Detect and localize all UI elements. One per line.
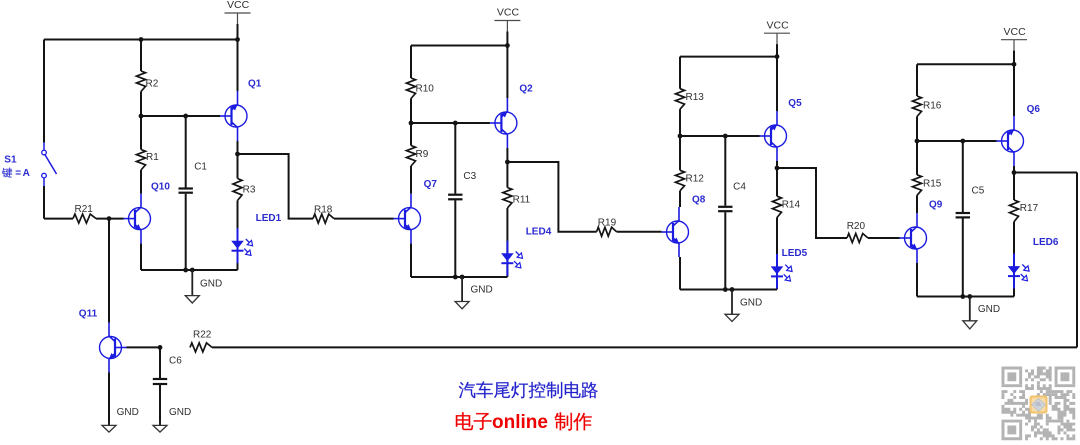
svg-text:VCC: VCC xyxy=(227,0,250,11)
svg-text:GND: GND xyxy=(471,284,493,295)
svg-text:GND: GND xyxy=(200,279,222,290)
svg-text:Q11: Q11 xyxy=(79,309,98,320)
svg-text:A: A xyxy=(23,168,30,179)
svg-text:Q1: Q1 xyxy=(248,79,262,90)
svg-text:S1: S1 xyxy=(4,154,17,165)
svg-text:Q5: Q5 xyxy=(788,98,802,109)
svg-text:LED1: LED1 xyxy=(256,213,282,224)
svg-text:C3: C3 xyxy=(463,171,476,182)
svg-text:GND: GND xyxy=(740,298,762,309)
svg-text:R22: R22 xyxy=(193,329,212,340)
svg-text:GND: GND xyxy=(978,304,1000,315)
svg-text:VCC: VCC xyxy=(497,7,520,19)
svg-text:R3: R3 xyxy=(243,185,256,196)
svg-text:LED5: LED5 xyxy=(782,248,808,259)
svg-text:Q7: Q7 xyxy=(424,179,438,190)
svg-text:R13: R13 xyxy=(686,92,705,103)
svg-text:R11: R11 xyxy=(513,194,531,205)
svg-text:R15: R15 xyxy=(923,178,942,189)
svg-text:R9: R9 xyxy=(416,149,429,160)
svg-text:R21: R21 xyxy=(75,204,94,215)
svg-text:R12: R12 xyxy=(686,173,705,184)
svg-text:C4: C4 xyxy=(733,181,746,192)
svg-text:LED6: LED6 xyxy=(1033,237,1059,248)
svg-text:R20: R20 xyxy=(847,221,866,232)
svg-text:GND: GND xyxy=(117,407,139,418)
svg-text:Q10: Q10 xyxy=(151,181,170,192)
svg-text:online: online xyxy=(492,412,548,433)
svg-text:GND: GND xyxy=(169,407,191,418)
svg-text:Q8: Q8 xyxy=(692,195,706,206)
svg-text:Q2: Q2 xyxy=(519,83,533,94)
svg-text:R14: R14 xyxy=(782,199,801,210)
svg-text:C5: C5 xyxy=(972,186,985,197)
svg-text:R2: R2 xyxy=(146,79,159,90)
svg-text:Q6: Q6 xyxy=(1027,104,1041,115)
svg-text:LED4: LED4 xyxy=(526,226,552,237)
svg-text:R10: R10 xyxy=(416,83,435,94)
svg-text:R1: R1 xyxy=(146,152,159,163)
svg-text:R19: R19 xyxy=(598,218,617,229)
svg-text:C1: C1 xyxy=(194,161,207,172)
svg-text:Q9: Q9 xyxy=(929,199,943,210)
svg-text:R16: R16 xyxy=(923,100,942,111)
svg-text:=: = xyxy=(15,168,21,179)
svg-text:VCC: VCC xyxy=(767,19,790,31)
svg-text:VCC: VCC xyxy=(1004,26,1027,38)
svg-text:R18: R18 xyxy=(314,204,333,215)
svg-text:C6: C6 xyxy=(169,355,182,366)
svg-text:R17: R17 xyxy=(1020,203,1039,214)
